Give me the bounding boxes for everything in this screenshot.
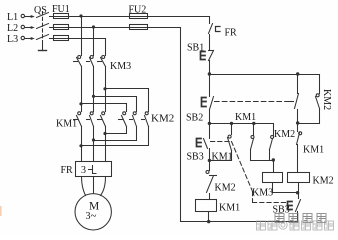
node B3 [252, 122, 255, 125]
node B [208, 122, 211, 125]
switch QS pole 1 blade [37, 13, 49, 18]
motor lead C [101, 177, 106, 196]
terminal L2 [21, 25, 35, 29]
svg-text:3~: 3~ [86, 210, 97, 222]
wire rail B [210, 124, 274, 136]
fuse FU1 pole2 [54, 25, 69, 30]
svg-text:FR: FR [61, 165, 74, 176]
button SB1 blade [209, 51, 214, 61]
relay contact FR-NC [209, 24, 221, 34]
watermark row1 [275, 214, 326, 224]
svg-text:FR: FR [225, 28, 238, 39]
wire phase B mid [93, 67, 95, 112]
coil KM3 [263, 173, 283, 183]
node L2-b [92, 25, 95, 28]
node A-branch [79, 102, 82, 105]
wire phase C drop [105, 39, 107, 56]
wire SB2 to nodeB [209, 110, 211, 124]
svg-text:FU2: FU2 [129, 5, 147, 16]
wire FR to SB1 [209, 35, 211, 51]
wire KM1-NO bottom [250, 150, 252, 161]
contactor KM2 pole2 [130, 112, 137, 127]
wire SB1 to nodeA [209, 61, 211, 75]
contact KM2-NC interlock [206, 171, 217, 193]
button SB2 actuator [202, 98, 207, 107]
link SB3 dashed horizontal [211, 141, 232, 143]
wire branch B to KM2 [94, 97, 137, 112]
node B2 [230, 122, 233, 125]
node C-branch [103, 87, 106, 90]
wire L2 row [50, 27, 181, 29]
wire bottom rail [181, 221, 298, 223]
svg-text:KM3: KM3 [110, 61, 131, 72]
link SB3 dashed diagonal [232, 142, 253, 192]
switch QS linkage [39, 12, 47, 51]
svg-text:KM1: KM1 [303, 145, 324, 156]
contact SB2-NC branch [289, 75, 299, 124]
wire L1 row [50, 16, 210, 18]
wire KM2-NO bottom [269, 150, 271, 161]
wire phase A lower [81, 127, 83, 162]
svg-text:QS: QS [34, 5, 47, 16]
wire KM2 out3 cross [82, 127, 149, 146]
contactor KM3 pole3 [98, 56, 106, 67]
svg-text:L2: L2 [7, 23, 18, 34]
wire KM3 coil bottom [273, 183, 298, 193]
wire control top [209, 17, 211, 24]
contact KM1 aux [228, 124, 232, 151]
svg-text:SB3: SB3 [187, 152, 204, 163]
node cross C [103, 132, 106, 135]
coil KM2 [288, 173, 310, 183]
wire phase C mid [105, 67, 107, 112]
svg-text:KM2: KM2 [274, 129, 295, 140]
wire pair bar [251, 160, 274, 162]
node bottom rail [207, 220, 210, 223]
button SB2 blade [210, 97, 214, 110]
coil KM1 [196, 200, 217, 212]
wire branch A to KM2 [82, 104, 127, 112]
link SB2 dashed [215, 101, 288, 103]
svg-text:KM1: KM1 [212, 152, 233, 163]
wire left rail [180, 28, 182, 222]
wire SB3 to KM2NC [209, 149, 211, 171]
switch QS pole 2 blade [37, 24, 49, 29]
wire branch C to KM2 [106, 89, 149, 112]
svg-text:L3: L3 [7, 34, 18, 45]
svg-text:3: 3 [81, 165, 86, 176]
wire to KM3 coil [273, 161, 275, 173]
terminal L1 [21, 14, 35, 18]
svg-text:KM2: KM2 [151, 113, 174, 125]
button SB1 actuator [201, 52, 206, 60]
node SB3 bottom [208, 159, 211, 162]
svg-text:KM2: KM2 [313, 176, 334, 187]
svg-text:SB1: SB1 [187, 43, 204, 54]
node L1-a [79, 14, 82, 17]
node pair [272, 158, 275, 161]
motor M circle [75, 194, 111, 230]
wire SB3-NO bottom [297, 212, 299, 222]
button SB3 blade [204, 139, 208, 149]
svg-text:KM2: KM2 [215, 183, 236, 194]
contactor KM2 pole1 [119, 112, 127, 127]
contactor KM3 pole1 [74, 56, 82, 67]
svg-text:KM2: KM2 [321, 89, 332, 110]
watermark row2 [257, 221, 334, 231]
svg-text:KM1: KM1 [219, 203, 240, 214]
node B-branch [92, 95, 95, 98]
motor lead B [93, 177, 95, 194]
terminal L3 [21, 36, 35, 40]
node coils join [296, 191, 299, 194]
button SB3-NO blade [296, 200, 301, 212]
wire phase A mid [81, 67, 83, 112]
wire KM1 aux bottom [210, 151, 232, 161]
fuse FU2 pole1 [130, 14, 148, 19]
svg-text:KM1: KM1 [56, 119, 77, 130]
node cross B [92, 138, 95, 141]
node cross A [79, 144, 82, 147]
link SB3 dashed lower [253, 192, 287, 203]
wire phase C lower [105, 127, 107, 162]
wire phase A drop [81, 17, 83, 56]
svg-text:L1: L1 [7, 12, 18, 23]
node A2 [296, 72, 299, 75]
svg-text:FU1: FU1 [52, 4, 70, 15]
contact KM2 aux [316, 75, 320, 124]
wire rail B right [298, 123, 320, 125]
contactor KM1 pole1 [74, 112, 82, 127]
button SB3-NO actuator [288, 202, 293, 210]
contactor KM1 pole2 [87, 112, 94, 127]
scan edge artifact [0, 206, 2, 216]
wire rail A [210, 74, 320, 76]
wire KM2 out2 cross [94, 127, 137, 141]
contact KM1-NO mid [251, 124, 255, 150]
button SB3 actuator [197, 139, 202, 147]
svg-text:KM3: KM3 [252, 188, 273, 199]
contact KM1-NO right [297, 124, 302, 173]
relay FR box [76, 162, 112, 177]
contactor KM3 pole2 [87, 56, 94, 67]
wire nodeB down [209, 124, 211, 139]
contactor KM2 pole3 [142, 112, 149, 127]
contactor KM1 pole3 [98, 112, 106, 127]
contact KM2-NO mid [270, 136, 274, 150]
wire KM2NC to coil [209, 194, 211, 200]
node A [208, 72, 211, 75]
wire nodeA to SB2 [209, 75, 211, 97]
node B4 [296, 121, 299, 124]
svg-text:SB2: SB2 [186, 113, 203, 124]
svg-text:KM1: KM1 [235, 112, 256, 123]
fuse FU1 pole3 [54, 36, 69, 41]
wire phase B lower [93, 127, 95, 162]
wire phase B drop [93, 28, 95, 56]
fuse FU1 pole1 [54, 14, 69, 19]
wire KM2 coil bottom [298, 183, 300, 199]
motor lead A [82, 177, 86, 196]
fuse FU2 pole2 [130, 25, 148, 30]
wire KM2 out1 cross [106, 127, 127, 134]
wire L3 row [50, 38, 106, 40]
relay FR heater symbol [89, 166, 97, 174]
wire KM1 coil bottom [208, 212, 210, 222]
switch QS pole 3 blade [37, 35, 49, 40]
